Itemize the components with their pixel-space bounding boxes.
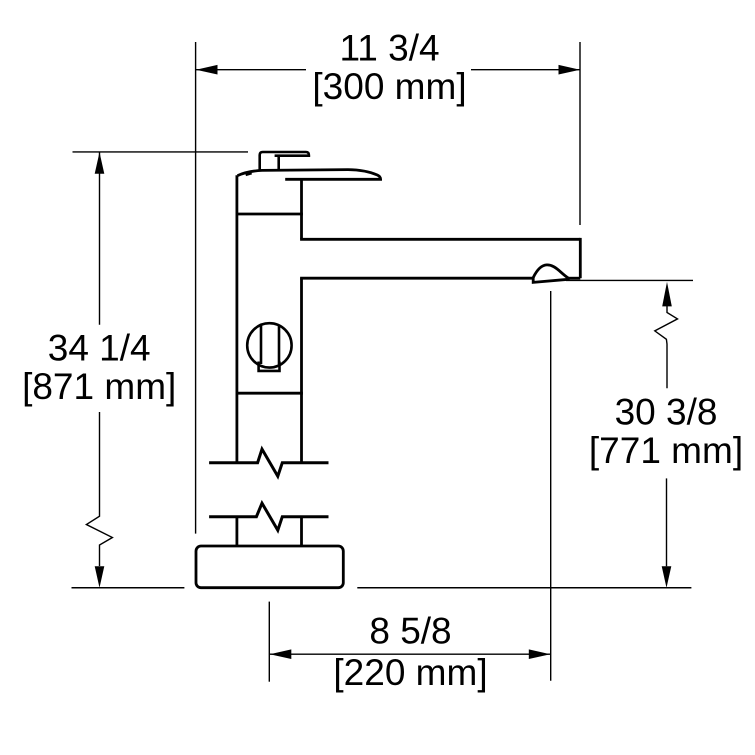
dimension line 34 1/4 (lower segment with break) xyxy=(86,412,112,566)
break line 2 xyxy=(209,503,328,530)
spout bottom edge (right of aerator) xyxy=(568,277,580,280)
dimension line 11 3/4 (left segment) xyxy=(196,69,306,71)
body right edge (spout bottom to break) xyxy=(300,278,303,463)
extension line: left of 8 5/8 dimension xyxy=(268,602,270,682)
arrowhead left of 11 3/4 xyxy=(196,65,218,75)
body right edge (lower) xyxy=(300,517,303,546)
base flange xyxy=(196,546,343,588)
spout top edge xyxy=(300,238,580,241)
floor line (right segment) xyxy=(357,587,691,589)
valve slot right chord xyxy=(278,325,281,365)
body left edge (lower) xyxy=(235,517,238,546)
aerator underside xyxy=(533,277,569,282)
arrowhead right of 11 3/4 xyxy=(559,65,581,75)
spout right edge xyxy=(579,238,582,278)
spout cap top profile xyxy=(238,170,381,180)
dimension line 34 1/4 (upper segment) xyxy=(99,153,101,325)
arrowhead bottom of 34 1/4 xyxy=(95,566,105,588)
break line 1 xyxy=(209,449,328,476)
lever stem right edge xyxy=(277,156,280,171)
arrowhead left of 8 5/8 xyxy=(270,649,292,659)
svg-text:34 1/4: 34 1/4 xyxy=(48,328,151,369)
extension line: right of 8 5/8 dimension xyxy=(550,291,552,681)
aerator bump xyxy=(533,265,568,278)
svg-text:[771 mm]: [771 mm] xyxy=(589,430,743,471)
arrowhead top of 30 3/8 xyxy=(662,282,672,307)
extension line: right of 11 3/4 dimension (spout tip) xyxy=(579,42,581,225)
valve circle xyxy=(247,323,291,367)
faucet lever handle xyxy=(260,152,309,171)
svg-text:[220 mm]: [220 mm] xyxy=(333,652,487,693)
svg-text:[871 mm]: [871 mm] xyxy=(22,366,176,407)
arrowhead top of 34 1/4 xyxy=(95,152,105,174)
dimension line 8 5/8 xyxy=(270,653,550,655)
arrowhead bottom of 30 3/8 xyxy=(662,566,672,588)
body divider 2 xyxy=(236,392,303,395)
svg-text:8 5/8: 8 5/8 xyxy=(369,611,451,652)
valve base plate xyxy=(259,362,280,371)
dimension line 30 3/8 (upper segment with break) xyxy=(655,306,678,388)
dimension line 11 3/4 (right segment) xyxy=(471,69,580,71)
cap notch tick xyxy=(246,173,252,175)
body divider 1 xyxy=(236,213,303,216)
floor line (left segment) xyxy=(72,587,185,589)
spout bottom edge (left of aerator) xyxy=(302,277,534,278)
body right edge (cap to spout top) xyxy=(300,179,303,239)
valve slot left chord xyxy=(260,325,263,364)
extension line: left of 11 3/4 dimension (base left edge) xyxy=(195,42,197,534)
body left edge (upper) xyxy=(235,175,238,463)
svg-text:[300 mm]: [300 mm] xyxy=(312,66,466,107)
dimension line 30 3/8 (lower segment) xyxy=(666,478,668,566)
extension line: spout outlet height (horizontal) xyxy=(566,279,693,281)
svg-text:30 3/8: 30 3/8 xyxy=(615,392,718,433)
extension line: top of 34 1/4 dimension (handle top) xyxy=(73,151,249,153)
svg-text:11 3/4: 11 3/4 xyxy=(339,27,439,68)
arrowhead right of 8 5/8 xyxy=(529,649,551,659)
